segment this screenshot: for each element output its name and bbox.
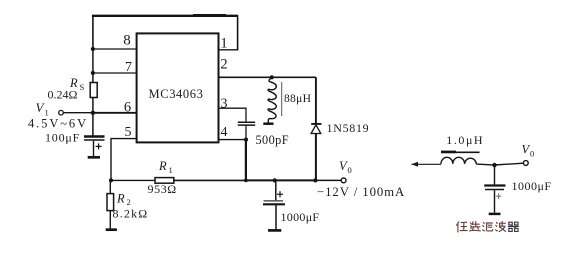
terminal V0 [341,178,346,183]
svg-text:8.2kΩ: 8.2kΩ [113,206,149,220]
wire pin4 node to bus [245,140,247,181]
node junction pin7/rail [91,71,95,75]
node junction bus/pin4 branch [244,179,248,183]
svg-text:2: 2 [220,57,227,73]
ground bar C3 [268,229,281,232]
capacitor C4 1000uF filter [484,165,505,213]
svg-text:4: 4 [221,125,228,140]
svg-text:R: R [116,191,125,205]
svg-text:R: R [158,159,167,173]
leader line 88uH [281,82,283,116]
terminal V0 filter [523,161,528,166]
svg-text:−12V / 100mA: −12V / 100mA [317,185,405,199]
wire Rs to V1 node [92,98,94,113]
wire L2 to node [476,164,494,165]
filter input arrow [412,162,442,167]
svg-text:4.5V~6V: 4.5V~6V [28,117,88,131]
wire output bus [246,179,316,181]
resistor Rs 0.24ohm [90,83,97,98]
svg-text:1N5819: 1N5819 [327,121,370,135]
terminal bar L1 bottom [263,122,273,125]
svg-text:1000μF: 1000μF [512,179,552,193]
wire node to V0 filter terminal [495,163,524,165]
char ren [457,222,468,232]
node junction pin2/L1 [270,75,274,79]
wire rail pin7 to Rs [92,73,94,83]
capacitor C1 100uF [84,137,105,157]
wire rail to input cap [92,113,94,136]
svg-text:100μF: 100μF [45,130,80,144]
node junction V1/pin6 [91,111,95,115]
caption optional filter (Chinese hand-drawn) [457,222,519,232]
wire pin 5 [111,139,137,181]
char xuan [470,222,481,231]
node junction pin5/R1/R2 [109,178,113,182]
node junction bus/D1 [313,178,317,182]
svg-text:88μH: 88μH [284,93,311,105]
node junction bus/C3 [273,178,277,182]
svg-text:500pF: 500pF [256,133,289,147]
IC U1 MC34063 body [137,33,219,142]
wire top loop pin8 rail to pin1 [92,15,239,50]
capacitor C3 1000uF output [263,180,285,229]
wire node to R1 [111,179,155,181]
resistor R1 953ohm [155,178,174,184]
wire R1 to bus [174,179,246,181]
svg-text:1: 1 [169,165,173,175]
wire pin 8 [93,48,137,50]
char bo [496,222,506,232]
ground for R2 [106,228,117,231]
svg-text:0: 0 [348,165,352,175]
node junction pin4/C2 [244,138,248,142]
svg-text:0: 0 [530,149,534,159]
inductor L2 1.0uH [441,152,480,164]
char lv [483,222,493,231]
ground bar C4 [489,213,501,216]
node junction pin8/rail [91,47,95,51]
wire pin 6 [93,112,137,114]
svg-text:5: 5 [125,125,132,140]
terminal V1 [59,110,64,115]
wire pin 3 [219,108,247,121]
char qi [508,222,518,231]
capacitor C2 500pF [238,122,255,139]
ground for C1 [88,156,100,159]
wire pin 7 [93,72,137,74]
wire pin 4 [219,139,247,141]
resistor R2 8.2kohm [109,180,111,193]
svg-text:953Ω: 953Ω [148,182,177,196]
svg-text:S: S [80,82,85,92]
wire V1 to rail [63,112,93,114]
wire bus to V0 terminal [315,179,341,181]
svg-text:MC34063: MC34063 [149,87,204,101]
diode D1 1N5819 [311,77,321,180]
svg-text:3: 3 [221,97,228,112]
svg-text:8: 8 [123,33,131,49]
node junction filter [492,163,496,167]
wire pin 2 [219,76,317,78]
svg-text:0.24Ω: 0.24Ω [48,88,78,102]
svg-text:1000μF: 1000μF [281,210,320,224]
svg-text:1.0μH: 1.0μH [446,133,484,147]
wire R2 to ground [109,211,111,229]
wire rail pin8 to pin7 [92,49,94,73]
inductor L1 88uH [268,78,276,123]
